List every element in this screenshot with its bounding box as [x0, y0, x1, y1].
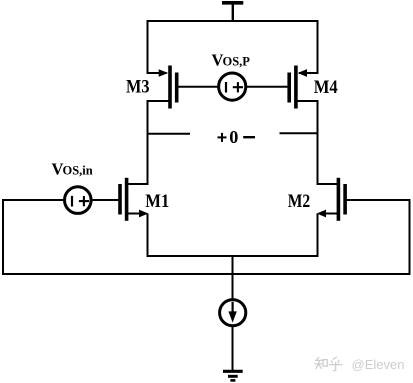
wire current source to ground [232, 326, 234, 371]
watermark zhihu @Eleven [315, 357, 404, 372]
transistor M3 [148, 66, 177, 109]
voltage source VOS,P [219, 73, 246, 100]
svg-text:0: 0 [229, 127, 238, 147]
svg-text:M2: M2 [288, 191, 311, 212]
voltage source VOS,in [65, 187, 92, 214]
wire M1 source drop [147, 214, 149, 258]
wire VOS,in to M1 gate [90, 199, 119, 201]
VDD supply bar [222, 3, 243, 21]
wire right supply drop to M4 source [299, 20, 318, 73]
wire left drain column M3 to M1 [147, 100, 149, 185]
wire VOS,P to M4 gate [245, 86, 288, 88]
ground [223, 371, 243, 380]
wire right drain column M4 to M2 [317, 100, 319, 185]
wire left output stub [148, 133, 191, 135]
transistor M2 [317, 178, 345, 221]
svg-text:M1: M1 [145, 191, 169, 212]
current source tail [220, 300, 246, 326]
transistor M4 [289, 66, 317, 109]
svg-text:M3: M3 [126, 77, 150, 98]
svg-text:OS,P: OS,P [223, 55, 251, 69]
svg-text:@Eleven: @Eleven [352, 357, 405, 372]
svg-text:M4: M4 [314, 77, 338, 98]
wire M2 source drop [317, 214, 319, 258]
transistor M1 [120, 178, 148, 221]
wire tail to current source [232, 256, 234, 301]
node label + 0 - [218, 127, 256, 147]
wire M3 gate to VOS,P [178, 86, 220, 88]
wire left supply drop to M3 source [148, 20, 167, 73]
wire feedback loop left/bottom/right to M2 gate [3, 200, 410, 274]
wire common source rail [147, 255, 319, 257]
svg-text:OS,in: OS,in [63, 164, 93, 178]
wire right output stub [280, 132, 318, 134]
wire top rail [147, 20, 319, 22]
